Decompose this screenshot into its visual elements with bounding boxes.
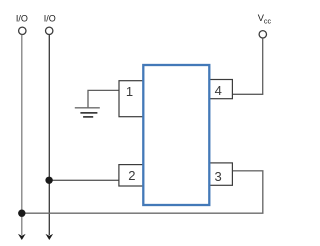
wire: Vcc vertical drop: [262, 38, 264, 94]
junction dot on I/O 1 line: [18, 210, 25, 217]
pin 2 box: [119, 165, 143, 186]
svg-text:2: 2: [128, 168, 135, 183]
svg-text:1: 1: [126, 84, 133, 99]
svg-text:3: 3: [214, 169, 221, 184]
arrow down on I/O 2 line: [46, 234, 54, 240]
wire: I/O 2 vertical line: [48, 35, 50, 235]
wire: pin 3 around bottom to I/O 1 junction: [21, 171, 263, 213]
terminal circle I/O 2: [46, 27, 53, 34]
svg-text:Vcc: Vcc: [258, 13, 272, 26]
IC body (blue rectangle): [143, 65, 209, 205]
pin 1 box: [119, 81, 143, 117]
wire: pin 4 to Vcc: [232, 93, 263, 95]
terminal circle I/O 1: [19, 27, 26, 34]
terminal circle Vcc: [259, 31, 266, 38]
junction dot on I/O 2 line: [45, 177, 52, 184]
wire: junction to pin 2: [49, 179, 119, 181]
arrow down on I/O 1 line: [18, 234, 26, 240]
svg-text:I/O: I/O: [44, 14, 56, 24]
ground symbol: [75, 108, 100, 117]
wire: ground to pin 1: [88, 90, 119, 107]
svg-text:I/O: I/O: [16, 14, 28, 24]
pin 3 box: [209, 163, 233, 185]
svg-text:4: 4: [215, 83, 222, 98]
wire: I/O 1 vertical line: [21, 35, 23, 235]
pin 4 box: [209, 80, 233, 99]
